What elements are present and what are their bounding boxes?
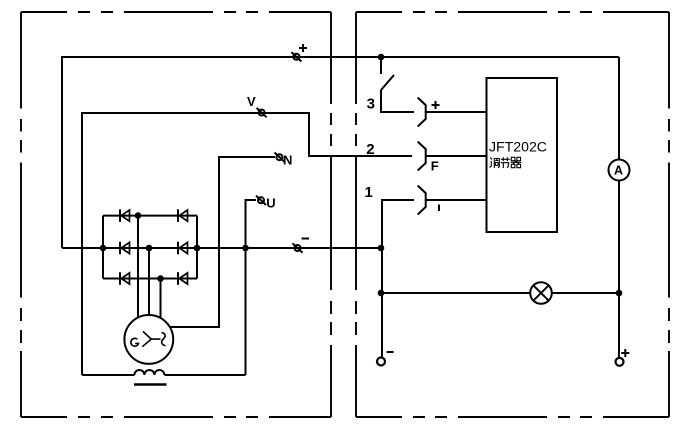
svg-text:U: U (266, 196, 275, 211)
svg-text:A: A (614, 164, 623, 178)
svg-text:F: F (431, 158, 439, 173)
svg-text:3: 3 (367, 96, 375, 113)
svg-text:V: V (247, 94, 256, 109)
svg-text:2: 2 (366, 141, 374, 158)
svg-text:1: 1 (365, 184, 373, 201)
svg-text:N: N (283, 153, 292, 168)
svg-text:JFT202C: JFT202C (489, 139, 547, 155)
